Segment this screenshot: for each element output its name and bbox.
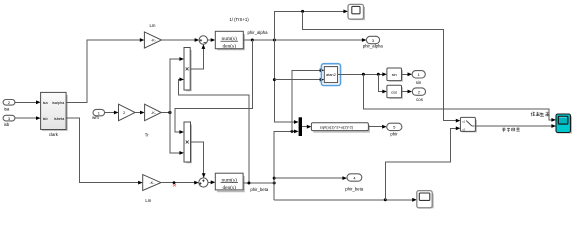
wire cos to port2 <box>402 90 413 94</box>
svg-text:sqrt(u(1)^2+u(2)^2): sqrt(u(1)^2+u(2)^2) <box>320 125 354 130</box>
svg-text:atan2: atan2 <box>326 72 336 77</box>
input port 2 isa <box>3 100 15 112</box>
sum2 (beta axis) <box>199 178 208 187</box>
svg-text:3: 3 <box>8 116 10 121</box>
label 转子磁链 (rotor flux) <box>502 127 520 132</box>
wire switch out to teal scope in2 (rotor flux) <box>475 124 556 128</box>
svg-text:-K-: -K- <box>149 180 155 185</box>
gain Tr <box>145 104 162 137</box>
svg-text:3: 3 <box>372 38 374 43</box>
red logging marker <box>173 184 176 187</box>
wire atan2 in1 from phir_beta <box>292 68 324 131</box>
wire upper product to sum1 <box>190 44 205 69</box>
svg-text:u1: u1 <box>462 120 466 124</box>
svg-text:cos: cos <box>416 97 423 102</box>
svg-text:2: 2 <box>123 110 125 115</box>
svg-text:num(s): num(s) <box>222 35 237 42</box>
sin block <box>387 68 402 81</box>
manual switch <box>460 117 476 131</box>
transfer function TF1 1/(TrS+1) <box>215 17 249 50</box>
svg-text:phir_alpha: phir_alpha <box>247 30 268 35</box>
svg-text:den(s): den(s) <box>222 184 236 191</box>
svg-text:num(s): num(s) <box>222 176 237 183</box>
wire gain 2 to gain Tr <box>135 111 145 115</box>
svg-text:sin: sin <box>392 72 397 77</box>
wire atan2 out to sin cos <box>338 72 387 93</box>
svg-text:Lm: Lm <box>145 198 151 203</box>
gain Lm (bottom) <box>143 175 161 203</box>
output port 4 phir_beta <box>345 174 364 192</box>
svg-text:phir: phir <box>390 132 398 137</box>
wire phir_beta to outport 4 <box>274 176 347 180</box>
wire sum2 to TF2 <box>208 180 215 184</box>
wire clark isalpha to gain Lm top <box>66 38 144 102</box>
wire clark isbeta to gain Lm bottom <box>66 118 143 184</box>
wire phir_beta to manual switch in2 <box>385 126 460 199</box>
sqrt function block <box>311 123 369 132</box>
svg-text:2: 2 <box>8 100 10 105</box>
svg-text:clark: clark <box>49 132 59 137</box>
product block (lower) <box>184 122 191 163</box>
svg-text:isbeta: isbeta <box>54 116 65 121</box>
wire isb to clark <box>15 116 41 120</box>
cos block <box>387 85 402 98</box>
input port 1 wm <box>92 109 104 119</box>
output port 2 cos <box>412 88 425 102</box>
svg-text:phir_beta: phir_beta <box>250 187 269 192</box>
wire phir_alpha up to scope1 <box>274 10 348 41</box>
output port 1 sin <box>412 71 425 85</box>
scope2 (bottom) <box>417 191 433 208</box>
svg-text:isa: isa <box>43 100 49 105</box>
wire wm to gain 2 <box>105 111 119 115</box>
teal scope <box>556 114 571 133</box>
wire phir_beta to scope2 <box>274 198 417 202</box>
wire atan2 out to teal scope in1 (position angle) <box>363 74 556 122</box>
svg-text:1/ (TrS+1): 1/ (TrS+1) <box>229 17 249 22</box>
svg-text:sin: sin <box>416 80 422 85</box>
svg-text:cos: cos <box>391 89 397 94</box>
wire sqrt to port5 <box>368 125 386 129</box>
svg-text:1: 1 <box>418 72 420 77</box>
scope1 (top) <box>348 4 364 19</box>
gain 2 (pole pairs) <box>119 104 136 121</box>
svg-text:-K-: -K- <box>151 110 157 115</box>
mux <box>299 117 312 136</box>
label 位置角度 (position angle) <box>531 112 550 117</box>
svg-text:-K-: -K- <box>151 37 157 42</box>
svg-text:2: 2 <box>418 89 420 94</box>
wire gain Lm to sum1 <box>162 38 200 42</box>
svg-text:phir_alpha: phir_alpha <box>363 43 384 48</box>
svg-text:den(s): den(s) <box>222 42 236 49</box>
svg-text:Tr: Tr <box>145 133 149 138</box>
svg-text:Lm: Lm <box>150 23 156 28</box>
svg-text:u2: u2 <box>462 127 466 131</box>
wire phir_alpha to outport 3 <box>243 30 366 42</box>
sum1 (alpha axis) <box>199 36 207 44</box>
wire gain Lm bottom to sum2 <box>161 181 199 185</box>
svg-text:phir_beta: phir_beta <box>345 186 364 191</box>
wire phir_beta feedback to upper product <box>179 78 249 184</box>
wire phir_beta vertical net <box>273 130 299 200</box>
wire phir_alpha to manual switch in1 <box>303 11 461 122</box>
svg-text:5: 5 <box>393 125 395 130</box>
svg-text:isalpha: isalpha <box>52 100 65 105</box>
svg-text:isb: isb <box>4 122 10 127</box>
svg-text:wm: wm <box>92 115 99 120</box>
output port 3 phir_alpha <box>363 36 384 48</box>
wire sin to port1 <box>402 72 413 76</box>
wire sum1 to TF1 <box>208 38 216 42</box>
output port 5 phir <box>387 123 402 136</box>
transfer function TF2 1/(TrS+1) <box>215 173 244 191</box>
wire lower product to sum2 <box>191 142 206 178</box>
wire phir_beta out of TF2 <box>243 182 276 192</box>
clark transform block <box>41 92 67 137</box>
wire phir_alpha feedback to lower product <box>175 40 252 134</box>
input port 3 isb <box>3 115 15 127</box>
wire phir_alpha down to mux and atan2 <box>273 40 324 124</box>
product block (upper) <box>184 48 191 91</box>
atan2 block (selected) <box>321 64 340 86</box>
svg-text:isa: isa <box>4 107 10 112</box>
gain Lm (top) <box>144 23 161 48</box>
wire wmTr junction <box>161 57 184 155</box>
svg-text:isb: isb <box>43 116 48 121</box>
wire isa to clark <box>15 100 41 104</box>
